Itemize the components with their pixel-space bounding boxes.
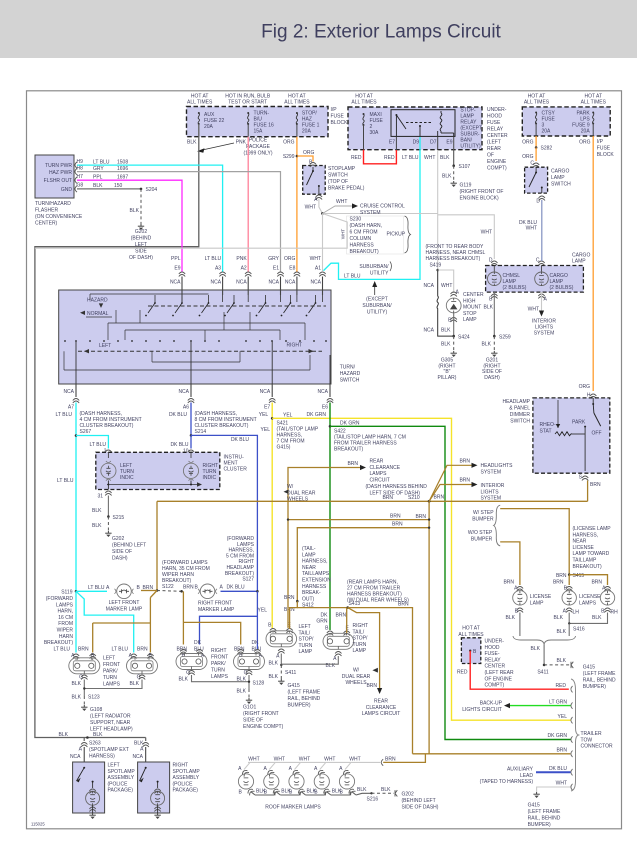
svg-text:LEFT FRONT: LEFT FRONT <box>109 600 140 606</box>
svg-text:1508: 1508 <box>117 159 128 165</box>
svg-text:WHT: WHT <box>248 756 259 762</box>
wire BRN into left park B pins <box>92 623 94 653</box>
svg-text:LT BLU: LT BLU <box>57 478 74 484</box>
svg-text:LT BLU: LT BLU <box>54 647 71 653</box>
internal linkage dashed row <box>148 305 326 307</box>
svg-text:SUBURBAN/: SUBURBAN/ <box>362 303 392 309</box>
svg-text:NCA: NCA <box>63 389 74 395</box>
svg-text:20A: 20A <box>204 124 214 130</box>
wire BRN to interior lights system <box>429 485 471 502</box>
svg-text:LT BLU: LT BLU <box>90 442 107 448</box>
svg-text:W/O STEP: W/O STEP <box>468 530 493 536</box>
wire BLK relay E9 to S107 <box>453 137 455 166</box>
svg-text:ALL TIMES: ALL TIMES <box>458 632 484 638</box>
svg-text:WHT: WHT <box>528 307 539 313</box>
svg-text:CLEARANCE: CLEARANCE <box>370 465 401 471</box>
wire BRN w/ step bumper to S415 <box>500 509 569 575</box>
svg-text:LAMPS: LAMPS <box>579 600 597 606</box>
svg-text:RELAY: RELAY <box>485 657 502 663</box>
svg-text:REAR: REAR <box>370 459 384 465</box>
svg-text:LT BLU: LT BLU <box>402 155 419 161</box>
svg-text:RELAY: RELAY <box>487 127 504 133</box>
svg-text:RIGHT: RIGHT <box>211 648 227 654</box>
svg-text:UTILITY: UTILITY <box>370 271 389 277</box>
wire BRN S415 to RH lamp <box>569 575 607 585</box>
svg-text:ROOF MARKER LAMPS: ROOF MARKER LAMPS <box>265 805 321 811</box>
lamp center high mount stop lamp <box>446 298 461 313</box>
node S267 <box>75 434 78 437</box>
svg-text:NCA: NCA <box>310 280 321 286</box>
wire YEL E7 run <box>271 403 273 629</box>
wire WHT to center lamp A <box>438 270 454 293</box>
svg-text:PILLAR): PILLAR) <box>438 375 457 381</box>
wire NCA pigtail with coil <box>437 270 454 336</box>
wire WHT S230 pickup branch <box>35 214 347 249</box>
svg-text:A2: A2 <box>241 265 247 271</box>
svg-text:RH: RH <box>611 610 619 616</box>
wire WHT down to A1 <box>322 214 324 272</box>
svg-text:WHT: WHT <box>526 226 537 232</box>
wire BRN S413 east bus down to trailer <box>348 608 413 754</box>
svg-text:G415: G415 <box>528 803 540 809</box>
svg-text:TURN: TURN <box>211 668 225 674</box>
svg-text:TAIL/: TAIL/ <box>353 629 365 635</box>
ground G202 <box>138 224 144 230</box>
svg-text:G415: G415 <box>583 665 595 671</box>
svg-text:BRAKE PEDAL): BRAKE PEDAL) <box>328 186 365 192</box>
svg-text:CLEARANCE: CLEARANCE <box>366 705 397 711</box>
svg-text:LAMP: LAMP <box>463 317 477 323</box>
svg-text:SIDE: SIDE <box>135 249 147 255</box>
svg-text:(POLICE: (POLICE <box>173 781 194 787</box>
svg-text:TURN: TURN <box>353 642 367 648</box>
svg-text:RED: RED <box>384 155 395 161</box>
svg-text:(BEHIND: (BEHIND <box>131 236 152 242</box>
svg-text:STOP: STOP <box>463 311 477 317</box>
svg-text:(2 BULBS): (2 BULBS) <box>503 285 527 291</box>
svg-text:YEL: YEL <box>261 427 271 433</box>
svg-text:NCA: NCA <box>285 280 296 286</box>
svg-text:PNK: PNK <box>236 256 247 262</box>
svg-text:BLK: BLK <box>357 787 367 793</box>
wire BLK left tail A to S411 <box>280 654 282 666</box>
svg-text:STOPLAMP: STOPLAMP <box>328 166 356 172</box>
wire BLK roof markers to S216 <box>356 793 372 795</box>
svg-text:INDIC: INDIC <box>120 475 134 481</box>
svg-text:DK BLU: DK BLU <box>169 412 187 418</box>
wire DK BLU A6 run <box>190 403 192 436</box>
wire LT BLU flasher to A3 <box>77 165 223 272</box>
svg-text:ENGINE COMPT): ENGINE COMPT) <box>243 724 284 730</box>
wire DK BLU marker A from main <box>221 590 258 592</box>
svg-text:(TAPED TO HARNESS): (TAPED TO HARNESS) <box>480 779 534 785</box>
wire BRN branch y519.6 to left <box>288 519 429 521</box>
svg-text:OF: OF <box>487 153 494 159</box>
svg-text:H7: H7 <box>77 174 84 180</box>
svg-text:S259: S259 <box>499 334 511 340</box>
wire BRN S412 bus to S413 <box>297 607 347 609</box>
svg-text:30A: 30A <box>370 130 380 136</box>
node S411 (license) <box>543 664 546 667</box>
svg-text:WHT: WHT <box>481 230 492 236</box>
svg-text:PNK: PNK <box>236 140 247 146</box>
svg-text:BLK: BLK <box>554 615 564 621</box>
svg-text:GRY: GRY <box>93 166 104 172</box>
svg-text:NCA: NCA <box>236 280 247 286</box>
svg-text:DK: DK <box>194 640 202 646</box>
svg-text:WHT: WHT <box>441 283 452 289</box>
wire BRN S412 to E pin left tail <box>290 601 298 629</box>
node S215 <box>107 515 110 518</box>
svg-text:SPOTLAMP: SPOTLAMP <box>173 769 201 775</box>
wire DK GRN branch to trailer <box>330 426 571 739</box>
svg-text:TAILLAMPS: TAILLAMPS <box>302 571 330 577</box>
svg-text:FUSE-: FUSE- <box>485 651 500 657</box>
lamp left front park/turn 2 <box>131 654 137 659</box>
svg-text:LICENSE: LICENSE <box>579 594 601 600</box>
svg-text:SWITCH: SWITCH <box>551 182 571 188</box>
svg-text:FUSE: FUSE <box>331 114 345 120</box>
svg-text:FUSE: FUSE <box>487 120 501 126</box>
svg-text:TEST OR START: TEST OR START <box>228 100 267 106</box>
svg-text:BLK: BLK <box>92 508 102 514</box>
svg-text:HARN,: HARN, <box>57 609 73 615</box>
stoplamp switch <box>303 166 326 195</box>
svg-text:LEFT: LEFT <box>99 343 111 349</box>
svg-text:FRONT: FRONT <box>103 662 120 668</box>
wire LT BLU S119 to bulb1 A of park lamps <box>75 591 77 652</box>
svg-text:WHT: WHT <box>305 205 316 211</box>
svg-text:LEFT SIDE OF DASH): LEFT SIDE OF DASH) <box>370 490 421 496</box>
wire BRN rear clearance tap <box>288 468 360 628</box>
svg-text:BLK: BLK <box>130 681 140 687</box>
pin 31 <box>105 491 111 496</box>
svg-text:150: 150 <box>114 183 123 189</box>
I/P fuse block (top left) <box>187 107 329 137</box>
svg-text:S215: S215 <box>113 515 125 521</box>
lamp CHMSL (2 bulbs) <box>488 272 502 286</box>
svg-text:WHT: WHT <box>424 155 435 161</box>
svg-text:(LEFT RADIATOR: (LEFT RADIATOR <box>90 714 131 720</box>
svg-text:(LEFT: (LEFT <box>487 140 501 146</box>
svg-text:(RIGHT FRONT: (RIGHT FRONT <box>243 711 279 717</box>
svg-text:BLK: BLK <box>484 305 494 311</box>
svg-text:SIDE OF: SIDE OF <box>243 718 263 724</box>
svg-text:DK BLU: DK BLU <box>231 437 249 443</box>
svg-text:E7: E7 <box>264 405 270 411</box>
svg-text:BLK: BLK <box>531 646 541 652</box>
svg-text:TAILLAMP: TAILLAMP <box>573 558 597 564</box>
svg-text:S415: S415 <box>573 573 585 579</box>
svg-text:BUMPER): BUMPER) <box>583 684 606 690</box>
svg-text:BRN: BRN <box>366 683 377 689</box>
svg-text:G202: G202 <box>135 229 147 235</box>
svg-text:LAMPS CIRCUIT: LAMPS CIRCUIT <box>362 711 401 717</box>
svg-text:RAIL, BEHIND: RAIL, BEHIND <box>288 696 321 702</box>
svg-text:COMPT): COMPT) <box>487 166 507 172</box>
svg-text:CENTER: CENTER <box>487 133 508 139</box>
svg-text:PACKAGE: PACKAGE <box>246 144 270 150</box>
svg-text:BLK: BLK <box>93 183 103 189</box>
svg-text:SWITCH: SWITCH <box>510 419 530 425</box>
svg-text:A7: A7 <box>68 405 74 411</box>
lamp left front park/turn 1 <box>73 654 79 659</box>
ground G101 <box>246 698 252 704</box>
svg-text:HARNESS BREAKOUT): HARNESS BREAKOUT) <box>426 256 481 262</box>
svg-text:BUMPER): BUMPER) <box>528 822 551 828</box>
svg-text:RAIL, BEHIND: RAIL, BEHIND <box>528 816 561 822</box>
svg-text:G202: G202 <box>402 792 414 798</box>
lamp left turn indicator <box>107 452 109 458</box>
svg-text:POLICE: POLICE <box>249 138 268 144</box>
wire ORG branch to stoplamp switch B <box>297 156 313 162</box>
svg-text:CENTER): CENTER) <box>35 221 58 227</box>
svg-text:DASH): DASH) <box>484 375 500 381</box>
svg-text:GRY: GRY <box>268 256 279 262</box>
wire WHT stop switch junction to D7 column <box>323 213 438 215</box>
svg-text:RIGHT: RIGHT <box>353 623 369 629</box>
wire BRN long bus from S210 <box>157 500 588 502</box>
svg-text:W/ STEP: W/ STEP <box>473 510 494 516</box>
svg-text:HARNESS): HARNESS) <box>89 754 115 760</box>
node S259 <box>493 335 496 338</box>
svg-text:E1: E1 <box>273 265 279 271</box>
svg-text:(LEFT FRAME: (LEFT FRAME <box>288 690 321 696</box>
svg-text:(LEFT REAR: (LEFT REAR <box>485 670 514 676</box>
wire LT BLU S119 to left marker A <box>76 590 107 592</box>
wire RED maxi fuse to relay E7 <box>363 125 365 150</box>
svg-text:TURN: TURN <box>299 643 313 649</box>
wire WHT trailer to ground <box>537 787 571 792</box>
svg-text:S419: S419 <box>430 263 442 269</box>
svg-text:HAZARD: HAZARD <box>340 371 361 377</box>
ground G108 <box>81 705 87 711</box>
wire BRN dimmer S down to bus <box>587 481 589 502</box>
svg-text:(ON CONVENIENCE: (ON CONVENIENCE <box>35 214 83 220</box>
svg-text:RIGHT: RIGHT <box>173 763 189 769</box>
node S419 <box>436 269 439 272</box>
underhood fuse relay center box <box>348 107 482 150</box>
svg-text:LEAD: LEAD <box>520 773 533 779</box>
svg-text:(POLICE: (POLICE <box>108 781 129 787</box>
svg-text:ORG: ORG <box>522 154 534 160</box>
svg-text:LT BLU: LT BLU <box>344 274 361 280</box>
svg-text:RIGHT: RIGHT <box>286 343 302 349</box>
wire dashed S122 to S123 <box>157 590 182 593</box>
svg-text:CARGO: CARGO <box>551 169 569 175</box>
svg-text:LEFT: LEFT <box>108 763 120 769</box>
svg-text:NEAR: NEAR <box>302 565 316 571</box>
svg-text:CRUISE CONTROL: CRUISE CONTROL <box>360 204 405 210</box>
wire LT BLU diagonal branch to bulb2 A <box>76 591 134 652</box>
svg-text:BRN: BRN <box>137 647 148 653</box>
svg-text:TRAILER: TRAILER <box>581 731 603 737</box>
svg-text:SYSTEM: SYSTEM <box>481 469 502 475</box>
svg-text:HEADLAMP: HEADLAMP <box>502 399 530 405</box>
wire WHT to BRN splice for trailer <box>381 759 383 765</box>
node S299 <box>296 155 299 158</box>
wire ORG ctsy fuse to cargo switch <box>535 136 537 148</box>
wire WHT relay D7 down to S419 <box>437 137 439 150</box>
svg-text:S127: S127 <box>242 577 254 583</box>
svg-text:BRN: BRN <box>459 459 470 465</box>
svg-text:BREAKOUT): BREAKOUT) <box>573 564 603 570</box>
svg-text:PARK: PARK <box>572 420 586 426</box>
svg-text:STOP/: STOP/ <box>353 636 369 642</box>
svg-text:BLK: BLK <box>269 674 279 680</box>
svg-text:WHEELS: WHEELS <box>287 497 309 503</box>
svg-text:SUPPORT, NEAR: SUPPORT, NEAR <box>90 720 131 726</box>
header bar <box>0 0 637 58</box>
svg-text:LAMP: LAMP <box>530 600 544 606</box>
svg-text:I/P: I/P <box>597 139 604 145</box>
ground G415 left tail <box>278 679 284 685</box>
svg-text:BLK: BLK <box>237 689 247 695</box>
svg-text:FUSE: FUSE <box>597 146 611 152</box>
svg-text:(FORWARD: (FORWARD <box>46 596 74 602</box>
svg-text:ENGINE: ENGINE <box>487 159 507 165</box>
svg-text:G108: G108 <box>90 707 102 713</box>
svg-text:G202: G202 <box>112 536 124 542</box>
wire BLK pin31 to S215 <box>107 496 109 517</box>
svg-text:E6: E6 <box>322 405 328 411</box>
svg-text:HIGH: HIGH <box>463 298 476 304</box>
svg-text:DK GRN: DK GRN <box>548 733 568 739</box>
wire dashed BLK to G202 <box>140 189 142 224</box>
svg-text:NCA: NCA <box>70 754 81 760</box>
LEFT / RIGHT dashed row <box>78 350 322 352</box>
wire BRN S122 to marker B <box>141 590 157 592</box>
svg-text:WHT: WHT <box>274 756 285 762</box>
svg-text:(EXCEPT: (EXCEPT <box>366 297 388 303</box>
node S282 <box>535 124 537 137</box>
svg-text:TURN/: TURN/ <box>340 365 356 371</box>
svg-text:YEL: YEL <box>558 714 568 720</box>
left spotlamp assembly <box>73 762 105 813</box>
svg-text:FRONT: FRONT <box>211 655 228 661</box>
node S413 <box>346 606 349 609</box>
svg-text:SYSTEM: SYSTEM <box>360 210 381 216</box>
turn/hazard flasher <box>35 155 74 198</box>
node S424 <box>452 335 455 338</box>
svg-text:ALL TIMES: ALL TIMES <box>581 100 607 106</box>
svg-text:NCA: NCA <box>423 328 434 334</box>
wire BRN roof splice to trailer bus <box>383 754 425 763</box>
svg-text:WHEELS: WHEELS <box>345 680 367 686</box>
svg-text:WHT: WHT <box>349 756 360 762</box>
svg-text:G1O1: G1O1 <box>243 705 257 711</box>
node S123 <box>180 590 183 593</box>
svg-text:STOP/: STOP/ <box>299 637 315 643</box>
svg-text:S282: S282 <box>541 146 553 152</box>
ground G305 <box>451 351 457 357</box>
svg-text:RED: RED <box>457 670 468 676</box>
wire DK BLU auxiliary lead <box>536 771 571 773</box>
svg-text:S214: S214 <box>195 429 207 435</box>
svg-text:BRN: BRN <box>398 602 409 608</box>
svg-text:BREAKOUT): BREAKOUT) <box>44 640 74 646</box>
svg-text:PPL: PPL <box>171 256 181 262</box>
svg-text:LAMPS: LAMPS <box>211 674 229 680</box>
svg-text:BREAK-: BREAK- <box>302 590 321 596</box>
svg-text:S230: S230 <box>350 217 362 223</box>
wire BLK S263 to right spotlamp <box>145 738 147 742</box>
svg-text:ORG: ORG <box>284 256 296 262</box>
svg-text:UTILITY): UTILITY) <box>460 144 481 150</box>
svg-text:Fig 2: Exterior Lamps Circuit: Fig 2: Exterior Lamps Circuit <box>261 22 501 43</box>
svg-text:A3: A3 <box>215 265 221 271</box>
svg-text:PICKUP: PICKUP <box>387 232 406 238</box>
cluster internal ground bus <box>107 481 109 485</box>
svg-text:LICENSE: LICENSE <box>573 545 595 551</box>
svg-text:DK: DK <box>252 640 260 646</box>
svg-text:BRN: BRN <box>434 495 445 501</box>
fuse PARK LPS FUSE 9 20A <box>592 112 594 125</box>
svg-text:ALL TIMES: ALL TIMES <box>284 100 310 106</box>
node S422 <box>329 425 332 428</box>
svg-text:FROM: FROM <box>58 621 73 627</box>
wire to cruise control <box>323 206 353 214</box>
lamp right turn indicator <box>190 452 192 458</box>
right I/P fuse block <box>522 107 610 136</box>
svg-text:BRN: BRN <box>385 756 396 762</box>
wire BRN S413 to dual rear wheels arrow <box>348 608 380 688</box>
node DK BLU split <box>256 590 259 593</box>
svg-text:S424: S424 <box>458 334 470 340</box>
svg-text:C: C <box>536 258 540 264</box>
svg-text:NCA: NCA <box>268 280 279 286</box>
svg-text:BRN: BRN <box>556 748 567 754</box>
right spotlamp assembly <box>138 762 170 813</box>
svg-text:S411: S411 <box>285 670 297 676</box>
svg-text:HOT AT: HOT AT <box>462 626 480 632</box>
wire flasher GND BLK to S204 <box>77 188 141 190</box>
fuse MAXI FUSE 2 30A <box>363 113 365 126</box>
svg-text:LAMP: LAMP <box>572 259 586 265</box>
ground G119 <box>451 181 457 187</box>
svg-text:PPL: PPL <box>93 174 103 180</box>
svg-text:ALL TIMES: ALL TIMES <box>187 100 213 106</box>
svg-text:S204: S204 <box>146 187 158 193</box>
svg-text:WHT: WHT <box>341 229 346 240</box>
wire BRN S415 to LH lamp <box>568 575 570 585</box>
svg-text:HOOD: HOOD <box>487 114 502 120</box>
wire LT BLU relay D9 down-left to A1 <box>324 137 421 279</box>
svg-text:BLK: BLK <box>557 658 567 664</box>
svg-text:115025: 115025 <box>31 822 45 827</box>
svg-text:(DASH HARN,: (DASH HARN, <box>350 223 383 229</box>
node S119 <box>75 590 78 593</box>
wire BRN S210 down <box>428 501 430 754</box>
svg-text:E9: E9 <box>174 265 180 271</box>
svg-text:& PANEL: & PANEL <box>509 406 530 412</box>
svg-text:ASSEMBLY: ASSEMBLY <box>173 775 200 781</box>
svg-text:INTERIOR: INTERIOR <box>481 483 505 489</box>
except suburban label <box>374 284 376 295</box>
svg-text:E9: E9 <box>446 140 452 146</box>
svg-text:S263: S263 <box>89 741 101 747</box>
svg-text:HARNESS,: HARNESS, <box>302 559 328 565</box>
wire BRN branch y527.7 to S412 <box>297 528 429 602</box>
svg-text:BLK: BLK <box>72 681 82 687</box>
svg-text:SPOTLAMP: SPOTLAMP <box>108 769 136 775</box>
brace step bumper options <box>494 505 501 546</box>
fuse CTSY FUSE 3 20A <box>535 112 537 125</box>
svg-text:FLSHR OUT: FLSHR OUT <box>44 178 72 184</box>
svg-text:MARKER LAMP: MARKER LAMP <box>106 607 143 613</box>
svg-text:BRN: BRN <box>591 580 602 586</box>
svg-text:HEADLIGHTS: HEADLIGHTS <box>481 463 514 469</box>
